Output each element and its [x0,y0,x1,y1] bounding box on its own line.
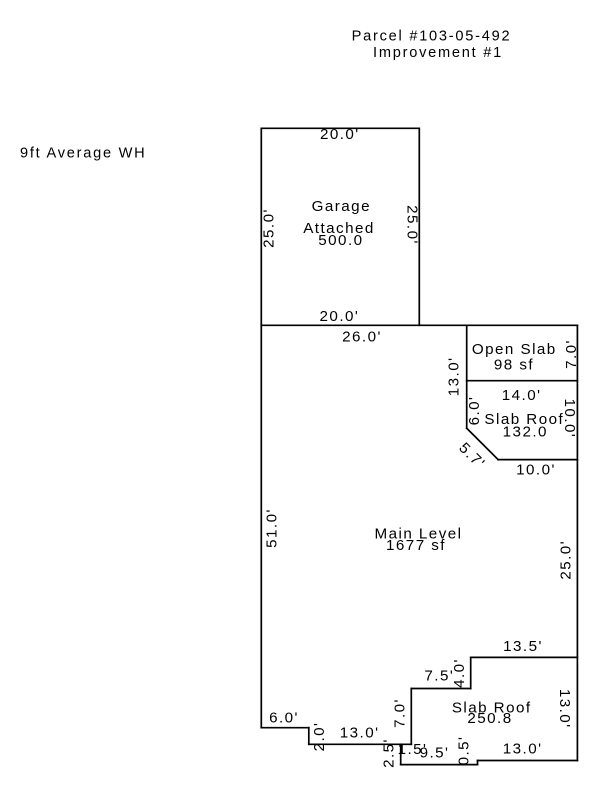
svg-text:13.0': 13.0' [556,689,573,729]
svg-text:13.0': 13.0' [446,357,463,397]
svg-text:25.0': 25.0' [403,205,420,245]
jog 2.0' [308,728,310,745]
svg-text:10.0': 10.0' [561,399,578,439]
garage outline [261,128,419,325]
svg-text:6.0': 6.0' [269,710,299,727]
bottom 9.5' segment [401,764,478,766]
bottom 13.0' right segment [478,760,578,762]
svg-text:25.0': 25.0' [557,540,574,580]
svg-text:13.0': 13.0' [340,725,380,742]
jog 0.5' [477,761,479,765]
lower slab roof top 13.5' [471,656,578,658]
svg-text:2.5': 2.5' [381,738,398,768]
svg-text:20.0': 20.0' [320,308,360,325]
svg-text:500.0: 500.0 [318,232,363,249]
svg-text:9ft Average WH: 9ft Average WH [20,146,146,162]
svg-text:Garage: Garage [312,198,371,215]
svg-text:7.0': 7.0' [563,339,580,369]
svg-text:7.5': 7.5' [424,668,454,685]
svg-text:51.0': 51.0' [263,508,280,548]
open slab bottom divider [467,380,578,382]
svg-text:Parcel #103-05-492: Parcel #103-05-492 [352,28,512,44]
svg-text:1677 sf: 1677 sf [386,537,446,554]
svg-text:7.0': 7.0' [391,698,408,728]
right edge full [576,325,578,760]
main level left edge 51.0' [260,325,262,727]
svg-text:14.0': 14.0' [502,387,542,404]
step 7.5' [411,688,470,690]
svg-text:26.0': 26.0' [342,329,382,346]
svg-text:2.0': 2.0' [311,722,328,752]
svg-text:13.5': 13.5' [503,638,543,655]
diagonal 5.7' [467,428,498,459]
svg-text:10.0': 10.0' [516,461,556,478]
main level + open slab top edge [261,324,577,326]
svg-text:250.8: 250.8 [467,710,512,727]
svg-text:20.0': 20.0' [320,126,360,143]
svg-text:25.0': 25.0' [261,208,278,248]
svg-text:0.5': 0.5' [455,736,472,766]
svg-text:9.5': 9.5' [420,745,450,762]
svg-text:6.0': 6.0' [466,396,483,426]
step 7.0' [410,689,412,745]
svg-text:98 sf: 98 sf [494,357,534,374]
notch 2.5' [400,744,402,764]
svg-text:Open Slab: Open Slab [472,341,557,358]
svg-text:132.0: 132.0 [503,424,548,441]
step 4.0' [470,657,472,688]
bottom-left 6.0' segment [261,727,309,729]
svg-text:13.0': 13.0' [503,740,543,757]
bottom 13.0' segment [309,743,412,745]
open slab left edge 13.0' [466,325,468,428]
slab roof bottom 10.0' [498,459,577,461]
svg-text:Improvement #1: Improvement #1 [373,45,503,61]
